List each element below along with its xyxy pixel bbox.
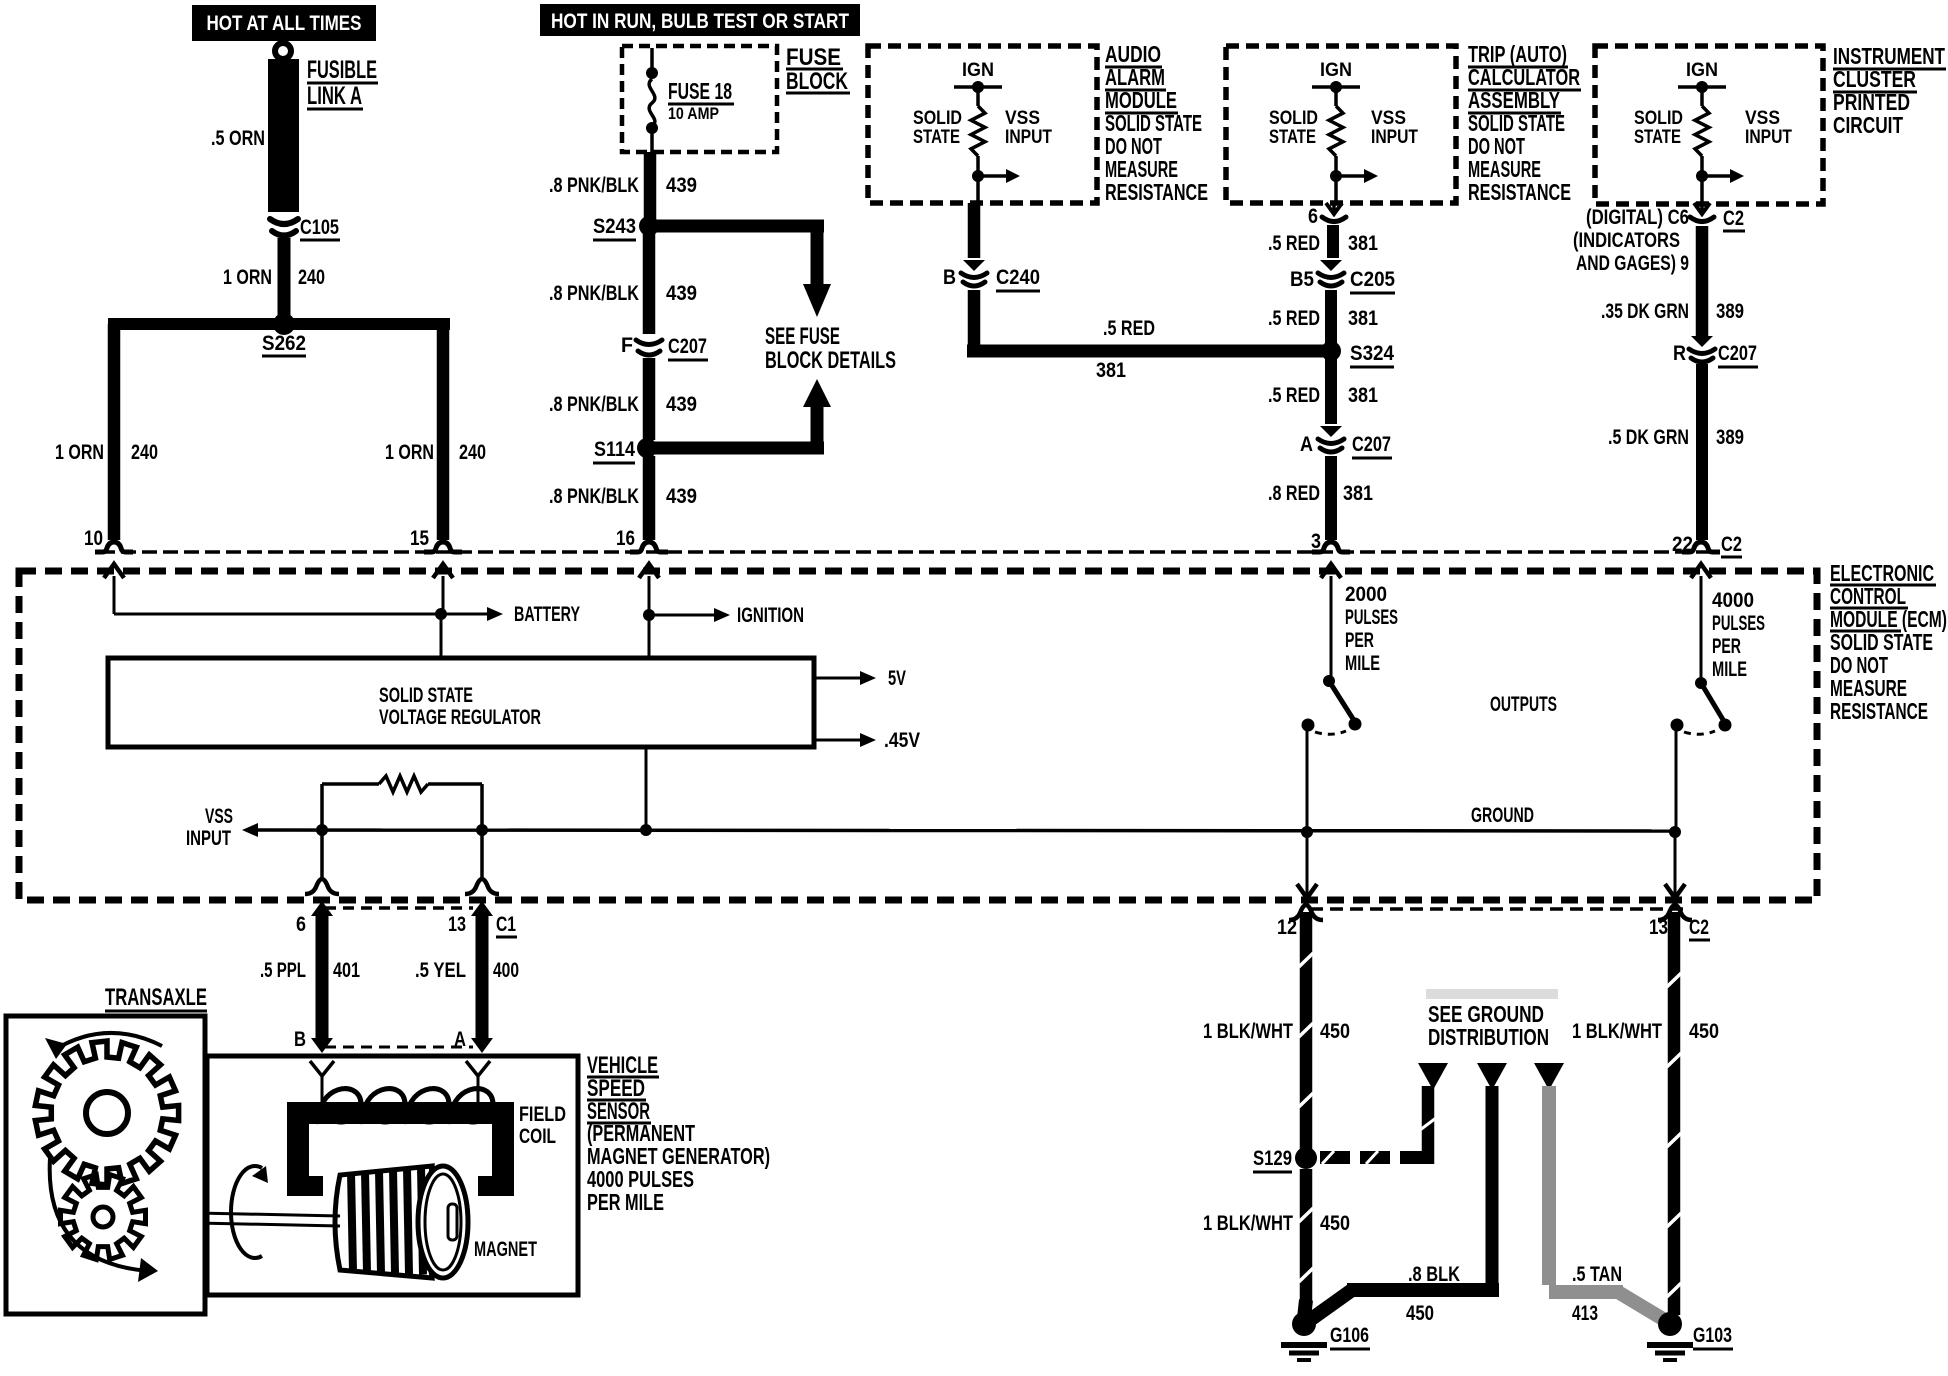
splice S129 — [1295, 1147, 1317, 1169]
wire .8 RED 381 C207 to pin 3 — [1325, 456, 1337, 540]
svg-text:.8 BLK: .8 BLK — [1408, 1263, 1460, 1286]
svg-text:381: 381 — [1343, 482, 1373, 505]
svg-text:12: 12 — [1277, 916, 1297, 939]
svg-text:.5 RED: .5 RED — [1268, 307, 1320, 330]
svg-text:PER: PER — [1345, 629, 1374, 652]
off-page wire .5 TAN 413 to G103 — [1534, 1063, 1564, 1090]
svg-text:439: 439 — [666, 485, 697, 508]
connector C205 pin B5 — [1320, 260, 1342, 271]
connector pin 6 — [1332, 203, 1336, 212]
svg-text:A: A — [1300, 433, 1313, 456]
wire branch to fuse block details (up arrow) — [653, 442, 824, 455]
svg-text:1 ORN: 1 ORN — [55, 441, 104, 464]
wire .5 RED 381 C205 to S324 — [1325, 290, 1337, 344]
connector C2 at cluster — [1700, 203, 1704, 212]
instrument cluster internal VSS input resistor — [1678, 85, 1726, 89]
svg-text:.8 PNK/BLK: .8 PNK/BLK — [549, 174, 639, 197]
2000 ppm switch — [1330, 576, 1333, 681]
C1 pin 13 — [465, 879, 499, 894]
svg-text:5V: 5V — [888, 667, 906, 690]
sensor connector face (thin dashed) — [325, 1046, 473, 1049]
svg-text:F: F — [621, 334, 633, 357]
wire branch S129 to ground distribution — [1320, 1151, 1350, 1164]
svg-text:HOT IN RUN, BULB TEST OR START: HOT IN RUN, BULB TEST OR START — [551, 10, 849, 33]
wire .5 RED 381 to S324 — [968, 290, 981, 351]
feed label HOT AT ALL TIMES — [192, 5, 376, 41]
svg-text:381: 381 — [1348, 232, 1378, 255]
connector C240 pin B — [963, 260, 985, 271]
svg-text:6: 6 — [296, 913, 306, 936]
fuse F18 10A — [650, 48, 654, 70]
splice S324 — [1321, 341, 1341, 361]
svg-text:C1: C1 — [496, 913, 516, 936]
svg-text:.45V: .45V — [884, 729, 920, 752]
connector C2 face (thin dashed) — [1310, 907, 1687, 911]
connector C207 pin F — [636, 340, 662, 345]
ECM pin 16 — [630, 542, 668, 552]
internal resistor across VSS inputs — [322, 782, 379, 786]
svg-text:RESISTANCE: RESISTANCE — [1830, 698, 1928, 724]
svg-text:COIL: COIL — [519, 1125, 556, 1148]
svg-text:16: 16 — [616, 527, 635, 550]
wire .5 YEL 400 — [476, 914, 489, 1040]
svg-text:TRANSAXLE: TRANSAXLE — [105, 984, 207, 1011]
svg-text:.5 RED: .5 RED — [1268, 384, 1320, 407]
wire .8 PNK/BLK 439 C207 to S114 — [643, 358, 656, 440]
5V output — [814, 677, 860, 680]
svg-text:381: 381 — [1348, 307, 1378, 330]
svg-text:MAGNET: MAGNET — [474, 1238, 537, 1261]
svg-text:MILE: MILE — [1712, 658, 1747, 681]
svg-text:1 ORN: 1 ORN — [223, 266, 272, 289]
svg-text:STATE: STATE — [1269, 127, 1316, 148]
rotor shaft — [105, 1211, 340, 1216]
wire .5 PPL 401 — [316, 914, 329, 1040]
battery net inside ECM — [113, 576, 116, 614]
4000 ppm switch — [1700, 576, 1703, 683]
svg-text:C207: C207 — [1352, 433, 1391, 456]
svg-text:HOT AT ALL TIMES: HOT AT ALL TIMES — [207, 12, 362, 35]
svg-text:.5 YEL: .5 YEL — [415, 959, 466, 982]
svg-text:401: 401 — [333, 959, 360, 982]
svg-text:.8 PNK/BLK: .8 PNK/BLK — [549, 393, 639, 416]
svg-text:GROUND: GROUND — [1471, 804, 1534, 827]
svg-text:PULSES: PULSES — [1345, 606, 1398, 629]
svg-text:.35 DK GRN: .35 DK GRN — [1601, 300, 1689, 323]
wire .8 PNK/BLK 439 fuse to S243 — [644, 152, 657, 220]
svg-text:VSS: VSS — [1745, 108, 1780, 129]
svg-text:439: 439 — [666, 393, 697, 416]
svg-text:439: 439 — [666, 282, 697, 305]
svg-text:381: 381 — [1096, 359, 1126, 382]
svg-text:(DIGITAL) C6: (DIGITAL) C6 — [1586, 206, 1689, 229]
C2 pin 12 — [1289, 905, 1323, 920]
svg-text:240: 240 — [298, 266, 325, 289]
svg-text:VSS: VSS — [1005, 108, 1040, 129]
ECM connector face (thin dashed) — [100, 550, 1714, 554]
svg-text:10: 10 — [84, 527, 103, 550]
svg-text:240: 240 — [459, 441, 486, 464]
svg-text:C2: C2 — [1689, 916, 1709, 939]
sensor pin A — [466, 1061, 490, 1076]
solid state voltage regulator — [108, 658, 814, 747]
feed label HOT IN RUN, BULB TEST OR START — [540, 4, 860, 36]
splice S114 — [637, 438, 657, 458]
svg-text:B: B — [294, 1028, 306, 1051]
vehicle speed sensor box — [207, 1056, 578, 1295]
svg-text:G103: G103 — [1693, 1324, 1732, 1347]
svg-text:C207: C207 — [668, 335, 707, 358]
svg-text:439: 439 — [666, 174, 697, 197]
ECM pin 15 — [424, 542, 462, 552]
svg-text:IGN: IGN — [962, 60, 994, 81]
svg-text:S114: S114 — [594, 438, 635, 461]
connector C207 pin A — [1320, 426, 1342, 437]
sensor pin B — [310, 1061, 334, 1076]
wire: S262 horizontal bus — [108, 318, 450, 330]
svg-text:15: 15 — [410, 527, 429, 550]
wire regulator to vss line — [645, 747, 648, 830]
svg-text:OUTPUTS: OUTPUTS — [1490, 693, 1557, 716]
svg-text:DISTRIBUTION: DISTRIBUTION — [1428, 1024, 1549, 1050]
svg-text:AND GAGES) 9: AND GAGES) 9 — [1576, 252, 1689, 275]
fuse block dashed box — [622, 46, 777, 152]
wire .5 DK GRN 389 to pin 22 — [1696, 364, 1708, 540]
svg-text:2000: 2000 — [1345, 583, 1387, 606]
svg-text:C207: C207 — [1718, 342, 1757, 365]
svg-text:IGNITION: IGNITION — [737, 604, 804, 627]
svg-text:LINK A: LINK A — [307, 82, 362, 110]
svg-text:FUSE 18: FUSE 18 — [668, 78, 732, 104]
svg-text:VSS: VSS — [1371, 108, 1406, 129]
svg-text:C205: C205 — [1350, 268, 1395, 291]
svg-text:10 AMP: 10 AMP — [668, 105, 719, 123]
svg-text:450: 450 — [1320, 1212, 1350, 1235]
svg-text:FIELD: FIELD — [519, 1103, 566, 1126]
svg-text:BATTERY: BATTERY — [514, 603, 580, 626]
svg-text:1 ORN: 1 ORN — [385, 441, 434, 464]
splice S243 — [639, 216, 659, 236]
svg-text:PER: PER — [1712, 635, 1741, 658]
svg-text:R: R — [1673, 342, 1686, 365]
svg-text:INPUT: INPUT — [1005, 127, 1052, 148]
svg-text:.5 TAN: .5 TAN — [1572, 1263, 1622, 1286]
svg-text:.5 RED: .5 RED — [1103, 317, 1155, 340]
C1 pin 6 — [305, 879, 339, 894]
svg-text:.8 PNK/BLK: .8 PNK/BLK — [549, 282, 639, 305]
svg-text:SOLID: SOLID — [1634, 108, 1683, 129]
C2 pin 13 — [1658, 905, 1692, 920]
wire .5 RED 381 pin6 to C205 — [1327, 225, 1339, 258]
ECM pin 10 — [95, 542, 133, 552]
ignition net inside ECM — [648, 576, 651, 658]
svg-text:240: 240 — [131, 441, 158, 464]
wire module to C240 — [968, 203, 981, 258]
svg-text:STATE: STATE — [913, 127, 960, 148]
off-page wire .8 BLK 450 to G106 — [1477, 1063, 1507, 1090]
ground G103 — [1658, 1312, 1682, 1336]
svg-text:S129: S129 — [1253, 1147, 1292, 1170]
svg-text:.5 PPL: .5 PPL — [260, 959, 306, 982]
fusible link A wire .5 ORN — [268, 59, 299, 212]
svg-text:450: 450 — [1320, 1020, 1350, 1043]
svg-text:B5: B5 — [1290, 268, 1314, 291]
svg-text:C105: C105 — [300, 216, 339, 239]
svg-text:SOLID: SOLID — [1269, 108, 1318, 129]
svg-text:381: 381 — [1348, 384, 1378, 407]
svg-text:1 BLK/WHT: 1 BLK/WHT — [1203, 1212, 1293, 1235]
connector C207 pin R — [1691, 336, 1713, 347]
splice S262 — [273, 313, 295, 335]
svg-text:S324: S324 — [1350, 342, 1394, 365]
svg-text:413: 413 — [1572, 1302, 1598, 1325]
transaxle drive gear — [35, 1041, 178, 1185]
instrument cluster box — [1595, 46, 1823, 204]
coil lead wires — [321, 1076, 324, 1104]
wire 1 ORN 240 — [278, 238, 291, 316]
svg-text:VOLTAGE REGULATOR: VOLTAGE REGULATOR — [379, 706, 541, 729]
wire .5 RED 381 S324 to C207 — [1325, 359, 1337, 424]
gear rotation arrows — [54, 1033, 162, 1050]
ECM pin 22 — [1682, 542, 1720, 552]
svg-text:.5 RED: .5 RED — [1268, 232, 1320, 255]
wire .8 PNK/BLK 439 S243 to C207 — [643, 234, 656, 334]
svg-text:C2: C2 — [1723, 207, 1744, 230]
wire 1 BLK/WHT 450 S129 to G106 — [1300, 1169, 1313, 1305]
connector C1 face (thin dashed) — [325, 906, 473, 910]
wire 1 BLK/WHT 450 pin 13 to G103 — [1668, 912, 1681, 1315]
svg-text:PER MILE: PER MILE — [587, 1189, 664, 1215]
field coil core — [287, 1102, 514, 1196]
wire branch to fuse block details (down arrow) — [655, 220, 824, 233]
svg-text:BLOCK DETAILS: BLOCK DETAILS — [765, 347, 896, 374]
electronic control module (ECM) dashed box — [19, 571, 1817, 900]
svg-text:450: 450 — [1406, 1302, 1434, 1325]
svg-text:.8 RED: .8 RED — [1268, 482, 1320, 505]
svg-text:INPUT: INPUT — [1745, 127, 1792, 148]
svg-text:C2: C2 — [1721, 533, 1742, 556]
svg-text:1 BLK/WHT: 1 BLK/WHT — [1203, 1020, 1293, 1043]
svg-text:CIRCUIT: CIRCUIT — [1833, 112, 1903, 138]
svg-text:389: 389 — [1716, 426, 1744, 449]
svg-text:S243: S243 — [593, 215, 636, 238]
wire 1 ORN 240 to pin 15 — [437, 324, 450, 540]
svg-text:SOLID: SOLID — [913, 108, 962, 129]
svg-text:.8 PNK/BLK: .8 PNK/BLK — [549, 485, 639, 508]
trip (auto) calculator assembly box — [1226, 46, 1456, 203]
svg-text:G106: G106 — [1330, 1324, 1369, 1347]
terminal ring — [275, 43, 291, 59]
svg-text:IGN: IGN — [1320, 60, 1352, 81]
svg-text:13: 13 — [1649, 916, 1668, 939]
svg-text:13: 13 — [448, 913, 466, 936]
svg-text:SEE FUSE: SEE FUSE — [765, 323, 840, 350]
svg-text:RESISTANCE: RESISTANCE — [1105, 179, 1208, 205]
svg-text:PULSES: PULSES — [1712, 612, 1765, 635]
svg-text:4000: 4000 — [1712, 589, 1754, 612]
connector C105 — [270, 219, 298, 224]
svg-text:S262: S262 — [262, 332, 306, 355]
svg-text:MILE: MILE — [1345, 652, 1380, 675]
magnet rotor — [335, 1166, 432, 1278]
svg-text:.5 ORN: .5 ORN — [211, 127, 265, 150]
svg-text:B: B — [943, 266, 956, 289]
ground distribution note — [1426, 989, 1558, 999]
svg-text:450: 450 — [1689, 1020, 1719, 1043]
svg-text:.5 DK GRN: .5 DK GRN — [1608, 426, 1689, 449]
svg-text:RESISTANCE: RESISTANCE — [1468, 179, 1571, 205]
svg-text:1 BLK/WHT: 1 BLK/WHT — [1572, 1020, 1662, 1043]
svg-text:400: 400 — [493, 959, 519, 982]
wire .8 PNK/BLK 439 S114 to pin 16 — [643, 456, 656, 540]
wire .35 DK GRN 389 — [1696, 226, 1709, 338]
svg-text:(INDICATORS: (INDICATORS — [1573, 229, 1680, 252]
transaxle driven gear — [61, 1175, 146, 1260]
svg-text:IGN: IGN — [1686, 60, 1718, 81]
svg-text:6: 6 — [1308, 205, 1318, 228]
wire 1 BLK/WHT 450 pin 12 to S129 — [1300, 912, 1313, 1150]
svg-text:STATE: STATE — [1634, 127, 1681, 148]
svg-text:FUSE: FUSE — [786, 44, 841, 71]
svg-text:C240: C240 — [996, 266, 1040, 289]
svg-text:INPUT: INPUT — [1371, 127, 1418, 148]
svg-text:BLOCK: BLOCK — [786, 68, 848, 95]
ECM pin 3 — [1312, 542, 1350, 552]
.45V output — [814, 739, 860, 742]
audio module internal VSS input resistor — [954, 85, 1002, 89]
svg-text:INPUT: INPUT — [186, 827, 231, 850]
trip calculator internal VSS input resistor — [1312, 85, 1360, 89]
audio alarm module box — [868, 46, 1097, 203]
svg-text:FUSIBLE: FUSIBLE — [307, 56, 377, 84]
field coil windings — [319, 1089, 361, 1124]
svg-text:VSS: VSS — [205, 805, 233, 828]
svg-text:389: 389 — [1716, 300, 1744, 323]
svg-text:SOLID STATE: SOLID STATE — [379, 684, 473, 707]
shaft rotation arrow — [231, 1166, 262, 1258]
wire 1 ORN 240 to pin 10 — [108, 324, 121, 540]
ground G106 — [1292, 1312, 1316, 1336]
